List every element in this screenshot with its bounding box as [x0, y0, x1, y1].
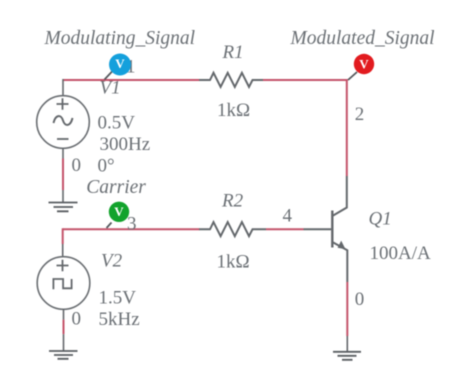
emitter lead down [346, 250, 348, 283]
V2 square wave symbol [53, 279, 71, 289]
transistor Q1 base bar [331, 211, 333, 248]
wire: R1 to corner (red) [263, 79, 348, 81]
ground under V1 [49, 203, 78, 212]
svg-text:1kΩ: 1kΩ [217, 100, 250, 121]
wire: V2 bottom (red) [63, 320, 65, 335]
svg-text:2: 2 [355, 104, 365, 125]
V1 sine symbol [54, 116, 73, 125]
svg-text:R1: R1 [222, 42, 244, 63]
svg-text:5kHz: 5kHz [99, 309, 140, 330]
svg-text:Modulating_Signal: Modulating_Signal [44, 28, 196, 49]
svg-text:V1: V1 [100, 78, 121, 99]
svg-text:100A/A: 100A/A [370, 243, 432, 264]
V2 top lead (gray) [62, 244, 64, 257]
V1 bottom lead (gray) [62, 148, 64, 158]
svg-text:4: 4 [283, 206, 293, 227]
svg-text:R2: R2 [221, 191, 244, 212]
svg-text:300Hz: 300Hz [100, 134, 151, 155]
svg-text:Carrier: Carrier [86, 177, 146, 198]
resistor R1 [199, 73, 263, 87]
ground under Q1 [333, 352, 361, 360]
ground under V2 [49, 351, 78, 359]
ground lead under Q1 [346, 336, 348, 352]
transistor Q1 collector lead [332, 176, 347, 216]
voltage probe Carrier (green) [109, 202, 129, 222]
probe tail (green probe) [107, 223, 112, 229]
emitter arrowhead [338, 241, 346, 250]
svg-text:V: V [114, 204, 124, 219]
resistor R2 [199, 222, 266, 236]
svg-text:0: 0 [72, 309, 82, 330]
wire: V1 top to R1 (red) [63, 79, 200, 81]
svg-text:V: V [115, 56, 125, 71]
svg-text:Q1: Q1 [369, 209, 392, 230]
svg-text:3: 3 [127, 214, 137, 235]
wire: V1 bottom (red) [62, 159, 64, 191]
transistor Q1 emitter with arrow [332, 242, 347, 250]
V1 top lead (gray) [62, 79, 64, 96]
svg-text:V2: V2 [101, 251, 123, 272]
transistor Q1 base lead [304, 228, 332, 230]
svg-text:0: 0 [355, 289, 365, 310]
wire: V2 corner to R2 (red) [63, 228, 200, 230]
svg-text:1kΩ: 1kΩ [217, 252, 250, 273]
svg-text:0.5V: 0.5V [98, 113, 136, 134]
voltage probe Modulating_Signal (blue) [109, 54, 131, 76]
svg-text:1.5V: 1.5V [99, 288, 137, 309]
voltage probe Modulated_Signal (red) [354, 54, 374, 74]
svg-text:0: 0 [72, 155, 82, 176]
svg-text:Modulated_Signal: Modulated_Signal [290, 28, 435, 49]
wire: Q1 emitter to ground (red) [346, 282, 348, 336]
probe tail (red probe) [348, 72, 357, 80]
V1 minus sign [57, 138, 69, 140]
wire: corner down to Q1 collector (red) [346, 79, 348, 176]
AC source V1 [37, 96, 90, 149]
svg-text:V: V [359, 56, 369, 71]
V2 ground lead (gray) [63, 334, 65, 351]
V1 plus sign [57, 98, 69, 110]
V1 ground lead (gray) [62, 190, 64, 203]
V2 bottom lead (gray) [63, 309, 65, 319]
wire: R2 to Q1 base (red) [266, 228, 304, 230]
square-wave source V2 [37, 257, 90, 310]
probe tail (blue probe) [105, 71, 114, 80]
wire: V2 corner vertical (red) [62, 228, 64, 244]
svg-text:0°: 0° [98, 156, 115, 177]
V2 plus sign [57, 260, 69, 272]
